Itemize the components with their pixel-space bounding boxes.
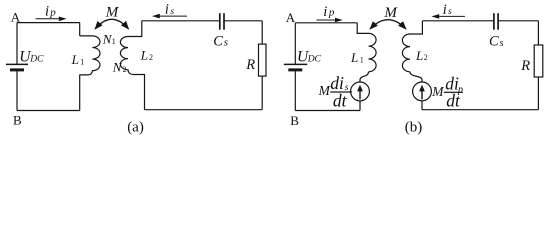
svg-text:dt: dt [333,90,348,110]
svg-text:1: 1 [80,58,84,67]
capacitor Cs (a): left plate [219,13,221,30]
wire: (b) left vertical lower (battery - to B) [294,70,296,111]
svg-text:p: p [328,7,335,19]
svg-text:s: s [500,38,504,49]
svg-text:1: 1 [360,56,364,65]
inductor L1 (b): 3-arc coil [369,33,377,71]
wire: (b) below right source to bottom [421,101,423,110]
inductor L2 (a): 3-arc coil [120,37,132,75]
wire: (b) below left source to bottom [359,101,361,111]
svg-text:s: s [170,7,174,17]
wire: (a) secondary bottom [145,109,263,111]
wire: (a) secondary top, L2 to capacitor Cs [142,20,220,22]
svg-text:B: B [290,113,299,128]
dependent source M dis/dt (b): circle [351,82,370,101]
svg-text:1: 1 [112,37,116,46]
wire: (b) secondary top, L2 to capacitor Cs [422,20,494,22]
wire: (a) L1 left vertical upper [79,23,81,36]
svg-text:R: R [520,58,530,74]
resistor R (a): rectangle body [259,44,267,76]
svg-text:M: M [318,83,331,98]
wire: (b) secondary top, Cs to right corner [498,20,538,22]
svg-text:C: C [489,33,499,49]
inductor L1 (a): 3-arc coil [80,36,100,75]
wire: (b) right vertical upper (to resistor R) [537,21,539,45]
wire: (b) L2 top step [410,21,422,34]
battery U_DC (b): long positive plate [284,63,308,65]
svg-text:M: M [105,4,120,20]
svg-text:2: 2 [149,53,153,62]
wire: (b) L2 bottom jog to dependent source [410,72,422,82]
wire: (a) right vertical lower (R to bottom) [261,76,263,110]
svg-text:M: M [431,84,444,99]
svg-text:2: 2 [424,53,428,62]
svg-text:DC: DC [307,54,322,64]
svg-text:L: L [415,48,423,63]
wire: (a) L1 left vertical lower [79,75,81,111]
svg-text:N: N [112,60,123,75]
mutual inductance M arrow (b): curved double arrow [370,20,406,29]
svg-text:(a): (a) [127,119,144,135]
svg-text:dt: dt [446,91,461,111]
svg-text:i: i [165,2,169,18]
svg-text:C: C [213,33,223,49]
capacitor Cs (b): right plate [497,13,499,30]
wire: (b) primary bottom [295,110,360,112]
wire: (a) left vertical upper (A to battery +) [16,23,18,64]
fraction bar of M dip/dt (b) [444,92,463,93]
svg-text:i: i [443,2,447,18]
current arrow i_s (a) [158,16,187,17]
svg-text:B: B [13,113,22,128]
svg-text:(b): (b) [405,119,423,135]
battery U_DC (b): short negative plate [288,68,302,71]
svg-text:A: A [286,10,296,25]
svg-text:R: R [245,57,255,73]
wire: (b) L1 bottom jog to dependent source [360,72,369,82]
current arrow i_p (a) [36,18,60,19]
svg-text:DC: DC [29,55,44,65]
svg-text:s: s [224,38,228,49]
wire: (a) primary bottom [17,110,80,112]
resistor R (b): rectangle body [534,45,543,77]
wire: (b) L1 top step [357,23,368,34]
wire: (a) right vertical upper (to resistor R) [261,21,263,44]
current arrow i_p (b) [317,20,336,21]
wire: (a) primary top from node A to L1 [17,22,80,24]
wire: (b) primary top from node A [295,22,357,24]
svg-text:L: L [140,48,148,63]
svg-text:L: L [71,52,79,67]
capacitor Cs (b): left plate [493,13,495,30]
svg-text:M: M [383,5,398,21]
svg-text:i: i [323,4,327,20]
svg-text:2: 2 [123,65,127,74]
inductor L2 (b): 3-arc coil [402,34,410,72]
dependent source M dip/dt (b): circle [413,82,432,101]
wire: (b) secondary bottom [422,109,538,111]
svg-text:L: L [350,50,358,65]
arrow inside left dependent source (b) [359,91,360,100]
svg-text:A: A [11,9,21,24]
svg-text:p: p [49,7,56,19]
wire: (a) L2 bottom jog and right vertical [133,75,145,110]
svg-text:s: s [448,7,452,17]
current arrow i_s (b) [438,16,465,17]
capacitor Cs (a): right plate [223,13,225,30]
wire: (a) secondary top, Cs to right corner [224,20,262,22]
wire: (a) L2 top step to secondary top wire [128,21,142,37]
fraction bar of M dis/dt (b) [330,91,352,92]
svg-text:i: i [45,4,49,20]
wire: (a) left vertical lower (battery - to B) [16,70,18,111]
arrow inside right dependent source (b) [421,91,422,100]
wire: (b) left vertical upper (A to battery +) [294,23,296,64]
battery U_DC (a): long positive plate [6,63,28,65]
wire: (b) right vertical lower (R to bottom) [537,77,539,110]
mutual inductance M arrow (a): curved double arrow [95,19,129,29]
battery U_DC (a): short negative plate [10,68,24,71]
